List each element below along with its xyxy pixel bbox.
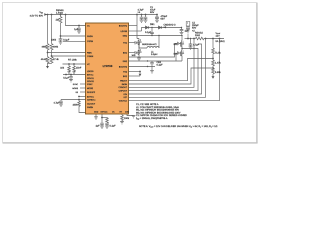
svg-text:100k: 100k <box>124 117 130 120</box>
ground COUT1 <box>186 30 190 32</box>
ground arrow chains <box>47 64 49 67</box>
svg-text:×4: ×4 <box>138 11 141 14</box>
resistor R 499k (chain1 top) <box>46 44 49 53</box>
capacitor LDO 1uF <box>180 28 184 33</box>
ground gatevcc cap <box>59 104 63 106</box>
transistor M3 <box>178 41 182 47</box>
capacitor CB2 <box>150 61 154 67</box>
svg-text:C1, C2: SEE NOTE A: C1, C2: SEE NOTE A <box>136 103 159 106</box>
wire VC pin <box>63 63 86 65</box>
svg-text:4.7µF: 4.7µF <box>54 101 61 104</box>
svg-text:DB1: DB1 <box>150 23 155 26</box>
svg-text:INTVCC: INTVCC <box>101 111 109 114</box>
wire LDO33 pair bottom <box>129 75 141 77</box>
svg-text:CLKOUT: CLKOUT <box>87 102 96 105</box>
svg-text:63V: 63V <box>161 18 166 21</box>
capacitor bottom2 <box>105 123 109 126</box>
svg-text:SHDN: SHDN <box>87 35 93 38</box>
bus wire 7 <box>129 39 220 101</box>
svg-text:SYNC: SYNC <box>73 83 79 86</box>
svg-text:MODE: MODE <box>87 87 94 90</box>
wire TG1 pin <box>129 42 136 44</box>
wire INTVCC diode feed <box>129 30 142 32</box>
transistor M1 <box>135 39 139 45</box>
node tap dots <box>47 52 53 57</box>
IC bottom stub RT <box>121 114 123 115</box>
svg-text:C1: C1 <box>150 6 154 9</box>
svg-text:4.5V TO 80V: 4.5V TO 80V <box>30 14 44 17</box>
ground bottomc2 <box>105 126 109 128</box>
svg-text:CSPOUT: CSPOUT <box>119 90 128 93</box>
svg-text:499k: 499k <box>53 45 59 48</box>
svg-text:RT 100k: RT 100k <box>68 59 78 62</box>
ground INTVCC <box>69 80 73 82</box>
bus wire 3 <box>129 39 195 88</box>
wire VOUT rail <box>185 38 196 40</box>
svg-text:5A (10A): 5A (10A) <box>216 40 225 43</box>
ground VIN cap <box>77 31 81 33</box>
capacitor bottom1 <box>100 123 104 126</box>
wire pair link <box>139 72 141 74</box>
capacitor COUT2 <box>189 39 193 47</box>
node cap bank dots <box>141 14 158 16</box>
svg-text:0.1µF: 0.1µF <box>63 39 70 42</box>
svg-text:SRVO2: SRVO2 <box>87 80 95 83</box>
node VIN junction dots <box>47 14 138 16</box>
svg-text:CSN: CSN <box>125 111 130 114</box>
wire diode row <box>142 28 182 32</box>
wire stub pin B <box>80 87 86 89</box>
svg-text:47µF: 47µF <box>150 8 156 11</box>
svg-text:M1, M2: INFINEON BSC026N08NS5: M1, M2: INFINEON BSC026N08NS5 60V <box>136 109 180 112</box>
frame border <box>3 3 258 144</box>
svg-text:63V: 63V <box>192 27 197 30</box>
svg-text:71.5k: 71.5k <box>215 52 222 55</box>
wire vert x137 <box>137 15 139 39</box>
svg-text:C1: NIPPON CHEMI-CON KXJ SERIE: C1: NIPPON CHEMI-CON KXJ SERIES HYBRID <box>136 114 187 117</box>
svg-text:SER2918H-472: SER2918H-472 <box>142 43 157 46</box>
svg-text:4.7µF: 4.7µF <box>138 8 145 11</box>
diode DB2 <box>159 26 162 29</box>
wire M2 drain <box>138 45 140 49</box>
wire CB2 top <box>129 60 183 62</box>
capacitor 4.7uF gatevcc <box>59 100 63 105</box>
resistor R 2M shdn pullup <box>59 15 62 37</box>
svg-text:M4: M4 <box>174 53 178 56</box>
resistor VC comp <box>68 64 71 72</box>
svg-text:C2: C2 <box>192 22 196 25</box>
svg-text:46.4k: 46.4k <box>41 58 48 61</box>
svg-text:IMON: IMON <box>122 83 128 86</box>
svg-text:CSNIN: CSNIN <box>87 55 94 58</box>
svg-text:LT8708: LT8708 <box>103 64 113 68</box>
ground arrow divider <box>212 74 214 77</box>
IC bottom stub gnd1 <box>95 114 97 117</box>
svg-text:499k: 499k <box>41 45 47 48</box>
ground bottom1 <box>94 117 98 119</box>
wire SHDN to IC <box>61 35 86 37</box>
inductor L1 <box>147 47 159 49</box>
svg-text:17.4k: 17.4k <box>53 58 60 61</box>
ground CIN <box>140 20 144 22</box>
wire stub pin C <box>80 91 86 93</box>
svg-text:1µF: 1µF <box>74 28 79 31</box>
ground LDO cap <box>180 32 184 34</box>
resistor R 46.4k (chain1 bottom) <box>46 53 49 64</box>
svg-text:ICN: ICN <box>124 93 128 96</box>
svg-text:2mΩ: 2mΩ <box>195 34 200 37</box>
svg-text:RVSOFF: RVSOFF <box>87 91 96 94</box>
capacitor C1 electrolytic <box>155 15 159 21</box>
ground RT <box>120 122 124 124</box>
svg-text:3.3µH: 3.3µH <box>151 53 158 56</box>
wire EXTVCC pin <box>79 96 86 98</box>
resistor 5.90k <box>212 68 215 74</box>
node VIN arrow <box>44 13 47 16</box>
svg-text:CB2: CB2 <box>157 61 162 64</box>
wire rail to input caps <box>137 14 157 16</box>
svg-text:M3, M4: INFINEON BSC060N10NS3: M3, M4: INFINEON BSC060N10NS3 100V <box>136 111 181 114</box>
wires right side / power stage in next section <box>129 14 225 101</box>
IC bottom stub caps <box>101 114 103 123</box>
svg-text:SYNC: SYNC <box>87 83 93 86</box>
divider FBOUT chain <box>212 39 214 49</box>
capacitor 1uF VIN <box>77 26 81 32</box>
svg-text:2M: 2M <box>56 19 59 22</box>
resistor R 499k (chain2 top) <box>50 44 53 57</box>
svg-text:FBOUT: FBOUT <box>120 80 128 83</box>
capacitor CB1 <box>150 28 154 36</box>
svg-text:1.5mΩ: 1.5mΩ <box>56 11 63 14</box>
right pin labels <box>119 24 128 102</box>
IC bottom stub gnd2 <box>127 114 134 116</box>
bus wire 2 <box>129 68 214 84</box>
svg-text:1µF: 1µF <box>185 30 190 33</box>
svg-text:0.1µF: 0.1µF <box>63 76 70 79</box>
svg-text:5.90k: 5.90k <box>215 71 222 74</box>
wire divider chain 1 vertical <box>47 15 49 44</box>
capacitor CIN ceramic <box>140 15 144 21</box>
svg-text:FBIN: FBIN <box>87 51 92 54</box>
resistor R 17.4k (chain2 bottom) <box>50 56 53 64</box>
resistor RT <box>121 115 124 122</box>
op-amp U1 LT8708 <box>86 23 129 114</box>
labels <box>30 9 130 127</box>
svg-text:1.47k: 1.47k <box>215 62 222 65</box>
bus wire 5 <box>129 44 202 94</box>
electrolytic COUT1 box <box>186 22 190 27</box>
wire M4 source down <box>181 56 183 61</box>
svg-text:L1: COILCRAFT SER2918H-103KL 1: L1: COILCRAFT SER2918H-103KL 10µH <box>136 106 179 109</box>
wire VOUT rail right <box>204 38 224 40</box>
svg-text:63V: 63V <box>150 11 155 14</box>
capacitor VC comp <box>73 64 76 72</box>
wire SW2 node <box>158 36 160 49</box>
wire SW2 mid node <box>182 46 194 50</box>
svg-text:100k: 100k <box>51 39 57 42</box>
wire chain join <box>48 63 52 65</box>
wire GATEVCC pin <box>61 99 86 101</box>
ground COUT2 <box>189 47 193 49</box>
svg-text:CSPIN: CSPIN <box>87 40 94 43</box>
svg-text:1µF: 1µF <box>95 125 100 128</box>
ground M2 <box>137 58 141 60</box>
svg-text:100k: 100k <box>72 103 78 106</box>
ground bottomc1 <box>100 126 104 128</box>
capacitor CIN ceramic B <box>144 15 148 21</box>
wire TG2 gate <box>129 44 178 58</box>
svg-text:SWEN: SWEN <box>87 106 94 109</box>
wire tap2 to IC <box>52 55 86 57</box>
svg-text:15nF: 15nF <box>76 67 82 70</box>
bottom pin labels <box>94 111 130 114</box>
power labels <box>138 6 225 74</box>
wire under IC <box>79 108 90 115</box>
wire M2 source gnd <box>138 55 140 59</box>
ground bottom right <box>132 116 136 118</box>
svg-text:0.1µF: 0.1µF <box>157 63 164 66</box>
IC pin labels <box>87 24 96 109</box>
svg-text:10k: 10k <box>60 67 65 70</box>
svg-text:0.1µF: 0.1µF <box>110 125 117 128</box>
wire SW1 node <box>139 45 147 49</box>
svg-text:BOOST2: BOOST2 <box>119 65 128 68</box>
notes text <box>136 103 218 129</box>
wire BOOST1 pin to vert <box>129 25 138 27</box>
wire VIN rail <box>46 14 138 16</box>
resistor pulldown bottom-left <box>78 100 81 108</box>
svg-text:4.7µF: 4.7µF <box>193 44 200 47</box>
wire VIN pin feed <box>66 15 86 26</box>
wire divider chain 2 vertical <box>51 15 53 44</box>
resistor RSNS2 <box>196 37 204 40</box>
bus wire 6 <box>129 39 206 98</box>
ground shdn <box>59 42 63 44</box>
wire CB2 bottom <box>129 66 156 68</box>
wire tap1 to IC <box>48 52 86 54</box>
svg-text:LDO33: LDO33 <box>87 70 94 73</box>
ground C1 <box>155 20 159 22</box>
wire CSPIN pin <box>63 40 86 42</box>
ground VC r <box>67 72 70 74</box>
wire M3 drain <box>181 36 183 41</box>
svg-text:fSW = 150kHz, DWQFN8708-A: fSW = 150kHz, DWQFN8708-A <box>136 117 168 120</box>
resistor 1.47k <box>212 59 215 69</box>
svg-text:12V: 12V <box>216 35 221 38</box>
ground VC c <box>72 72 75 74</box>
ground CB2 <box>150 67 154 74</box>
svg-text:LDO33: LDO33 <box>121 30 128 33</box>
bus wire 1 <box>129 59 214 81</box>
bus wire 4 <box>129 49 199 91</box>
resistor bottom mid <box>106 118 109 124</box>
svg-text:NOTE A: VOUT = 12V CAN DELIVER: NOTE A: VOUT = 12V CAN DELIVER 10A WHEN … <box>139 125 218 128</box>
wire SW2 run <box>129 35 183 37</box>
resistor 71.5k <box>212 48 215 59</box>
wire INTVCC pin <box>63 74 86 76</box>
wire BG1 pin <box>129 52 136 54</box>
svg-text:SRVO1: SRVO1 <box>87 77 95 80</box>
capacitor INTVCC <box>69 75 73 80</box>
wire BG2 gate <box>176 54 178 62</box>
svg-text:CSNOUT: CSNOUT <box>119 86 128 89</box>
wire COUT1 stub <box>187 34 189 39</box>
svg-text:VOUTLO: VOUTLO <box>119 100 128 103</box>
svg-text:GND: GND <box>94 111 99 114</box>
wire bottom jog <box>102 117 107 119</box>
svg-text:SS: SS <box>75 91 78 94</box>
ground CINB <box>144 20 148 22</box>
wire LDO33 pair top <box>129 71 141 73</box>
capacitor shdn filter <box>59 36 63 42</box>
svg-text:470µF: 470µF <box>161 15 168 18</box>
svg-text:MODE: MODE <box>72 87 78 90</box>
svg-text:BOOST1: BOOST1 <box>119 24 128 27</box>
wire stub pin A <box>80 83 86 85</box>
svg-text:CMDSH2-3: CMDSH2-3 <box>164 23 177 26</box>
transistor M4 <box>178 50 182 56</box>
capacitor COUT1 plates <box>186 26 190 30</box>
svg-text:VOUT: VOUT <box>216 32 221 35</box>
transistor M2 <box>135 49 139 55</box>
diode DB1 <box>146 26 149 29</box>
svg-text:150µF: 150µF <box>192 24 199 27</box>
svg-text:0.1µF: 0.1µF <box>145 31 152 34</box>
svg-text:VIN: VIN <box>39 11 43 14</box>
